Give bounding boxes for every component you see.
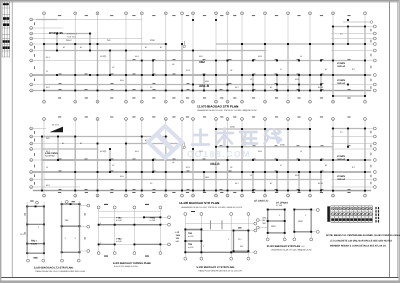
- detail D4 right room: [234, 231, 249, 252]
- svg-text:1: 1: [227, 194, 228, 197]
- detail D1 inner text: [31, 240, 38, 246]
- svg-text:5: 5: [141, 118, 142, 121]
- inner frame bottom line: [1, 276, 398, 278]
- svg-text:LTJIAN: LTJIAN: [337, 62, 345, 65]
- svg-text:14.400 BIAOGAO STR PLAN: 14.400 BIAOGAO STR PLAN: [179, 201, 219, 205]
- svg-text:9: 9: [215, 194, 216, 197]
- detail D4 stair flights: [211, 220, 223, 229]
- svg-text:240: 240: [240, 245, 243, 248]
- svg-text:UNMARKED SLAB TH=100, Φ8@200 2: UNMARKED SLAB TH=100, Φ8@200 2L2W: [271, 249, 312, 252]
- svg-text:3: 3: [264, 118, 265, 121]
- svg-text:5: 5: [309, 118, 310, 121]
- svg-text:4.5M CENG: 4.5M CENG: [45, 152, 58, 155]
- inner frame top line: [1, 1, 398, 3]
- detail D2 top dimension: [72, 200, 75, 203]
- svg-text:9: 9: [215, 12, 216, 15]
- plan1 right axis bubbles: [373, 25, 376, 92]
- plan1 horizontal beams: [33, 20, 371, 97]
- detail D1 bottom bubbles: [27, 259, 45, 262]
- detail D3 top bubbles: [97, 206, 162, 209]
- svg-text:YTB1: YTB1: [150, 217, 156, 220]
- svg-text:3: 3: [97, 118, 98, 121]
- plan2 right dimension texts: [370, 131, 373, 185]
- detail D4 title: [197, 266, 244, 272]
- detail D4 bottom beam: [185, 251, 248, 253]
- inner frame right line: [389, 2, 391, 278]
- svg-text:7: 7: [364, 12, 365, 15]
- plan1 leader note right: [343, 21, 373, 24]
- svg-text:5: 5: [141, 194, 142, 197]
- svg-text:21.300: 21.300: [276, 204, 283, 207]
- detail D3 grid: [99, 209, 168, 251]
- svg-text:2: 2: [241, 118, 242, 121]
- plan1 top dimension text row: [58, 14, 351, 17]
- svg-text:3: 3: [264, 194, 265, 197]
- svg-text:2: 2: [75, 101, 76, 104]
- plan2 stair hatch triangle: [50, 127, 64, 133]
- svg-text:6: 6: [332, 101, 333, 104]
- svg-text:TUJI 03G: TUJI 03G: [67, 35, 77, 38]
- svg-text:DTJF 1:25: DTJF 1:25: [49, 31, 63, 35]
- detail D5 left text: [262, 217, 268, 226]
- svg-text:TIBAN PEIJIN SEE JS-12, MEMBER: TIBAN PEIJIN SEE JS-12, MEMBER DIMS SEE …: [35, 270, 85, 273]
- plan2 bottom dimension text row: [58, 191, 351, 194]
- detail D3 beams: [99, 217, 161, 244]
- detail D5 room B: [294, 210, 311, 232]
- svg-text:5: 5: [309, 12, 310, 15]
- page outer edge right: [398, 0, 400, 283]
- svg-text:1: 1: [43, 101, 44, 104]
- plan1 machine room text block: [49, 31, 77, 39]
- detail D1 top dimension: [30, 200, 33, 203]
- plan1 left axis bubbles: [30, 18, 33, 92]
- svg-text:5.100 BIAOGAO LTJ STR PLAN: 5.100 BIAOGAO LTJ STR PLAN: [34, 266, 73, 269]
- svg-text:2: 2: [241, 194, 242, 197]
- svg-text:4: 4: [125, 118, 126, 121]
- svg-text:WB2: WB2: [298, 220, 304, 223]
- svg-text:1: 1: [43, 12, 44, 15]
- svg-text:1: 1: [227, 118, 228, 121]
- svg-text:2: 2: [241, 12, 242, 15]
- detail D4 room texts: [188, 232, 243, 249]
- svg-text:4: 4: [125, 12, 126, 15]
- detail D4 grid: [185, 216, 254, 258]
- detail D2 top bubble: [65, 200, 68, 203]
- outer frame right line: [397, 2, 399, 278]
- plan2 beam labels: [46, 126, 328, 188]
- svg-text:MEMBER REBAR & CONN DETAILS SE: MEMBER REBAR & CONN DETAILS SEE ATLAS JS…: [330, 244, 387, 247]
- svg-text:YTB1: YTB1: [116, 217, 122, 220]
- svg-text:5.100 BIAOGAO LT STR PLAN: 5.100 BIAOGAO LT STR PLAN: [197, 266, 234, 269]
- svg-text:QT JIAGU XJ: QT JIAGU XJ: [254, 200, 269, 203]
- svg-text:5: 5: [141, 12, 142, 15]
- svg-text:2: 2: [241, 101, 242, 104]
- plan2 major beam overlays: [33, 160, 371, 191]
- svg-text:KL3(2): KL3(2): [100, 55, 107, 58]
- svg-text:6: 6: [165, 12, 166, 15]
- detail D5 inner texts: [271, 214, 307, 228]
- page outer edge left: [0, 0, 1, 283]
- detail D3 right bubbles: [168, 216, 171, 246]
- plan1 left dimension texts: [33, 22, 36, 81]
- plan2 interior dimension texts: [59, 145, 351, 189]
- detail D1 columns: [26, 205, 45, 254]
- svg-text:LTJIAN: LTJIAN: [337, 155, 345, 158]
- detail D4 bottom bubbles: [184, 257, 250, 260]
- plan1 column squares: [43, 19, 366, 97]
- svg-text:7: 7: [364, 194, 365, 197]
- svg-text:h=100: h=100: [116, 240, 123, 243]
- svg-text:4: 4: [287, 118, 288, 121]
- svg-text:JFANG XJ: JFANG XJ: [67, 33, 77, 36]
- detail D1 top bubble: [36, 201, 39, 204]
- plan2 vertical beams: [42, 129, 365, 191]
- svg-text:3: 3: [264, 12, 265, 15]
- svg-text:4: 4: [125, 101, 126, 104]
- svg-text:h=100: h=100: [150, 219, 157, 222]
- plan1 interior dimension texts: [59, 59, 351, 90]
- detail D1 grid verticals: [27, 202, 44, 259]
- svg-text:1:100: 1:100: [234, 106, 240, 109]
- svg-text:3: 3: [97, 12, 98, 15]
- svg-text:8: 8: [192, 101, 193, 104]
- detail D3 title: [113, 262, 151, 268]
- svg-text:h=120: h=120: [188, 235, 193, 238]
- detail D4 columns: [184, 228, 249, 253]
- plan1 bottom dimension text row: [58, 97, 351, 100]
- detail D5 right bubbles: [316, 209, 319, 234]
- svg-text:4: 4: [287, 101, 288, 104]
- detail D4 dimensions: [191, 211, 242, 228]
- detail D4 right bubbles: [254, 222, 257, 254]
- inner frame left line: [11, 2, 13, 278]
- detail D2 columns: [61, 203, 81, 253]
- detail D5 left bubbles: [256, 219, 259, 229]
- detail D5 columns: [267, 209, 312, 234]
- svg-text:9: 9: [215, 101, 216, 104]
- plan2 dark room outline: [42, 137, 75, 161]
- plan1 title: [197, 105, 257, 113]
- svg-text:6: 6: [332, 194, 333, 197]
- plan1 major beam overlays: [33, 75, 371, 91]
- svg-text:4: 4: [125, 194, 126, 197]
- svg-text:4: 4: [287, 194, 288, 197]
- plan1 right wing labels: [337, 33, 355, 85]
- rebar schedule row header: [327, 206, 330, 222]
- svg-text:CO188.COM: CO188.COM: [187, 149, 251, 159]
- svg-text:3: 3: [97, 194, 98, 197]
- svg-text:1: 1: [43, 118, 44, 121]
- svg-text:3: 3: [97, 101, 98, 104]
- plan1 beam labels: [46, 39, 328, 89]
- svg-text:TB3 h12: TB3 h12: [337, 158, 346, 161]
- svg-text:KL10: KL10: [318, 86, 324, 89]
- plan2 room text block: [45, 152, 58, 158]
- svg-text:LTJ CONCRETE C30 (P6), BAR SPL: LTJ CONCRETE C30 (P6), BAR SPLICE SEE GE…: [330, 239, 392, 242]
- svg-text:21.300 BIAOGAO STR PLAN: 21.300 BIAOGAO STR PLAN: [267, 245, 301, 248]
- title block cell text: [3, 3, 10, 49]
- svg-text:5: 5: [141, 101, 142, 104]
- plan1 vertical grid lines: [44, 15, 365, 100]
- svg-text:2: 2: [75, 12, 76, 15]
- page outer edge top: [0, 0, 400, 2]
- svg-text:7: 7: [181, 118, 182, 121]
- svg-text:8: 8: [192, 194, 193, 197]
- svg-text:(2): (2): [262, 219, 265, 222]
- detail D2 right bubbles: [87, 204, 90, 252]
- detail D1 bottom dimension: [34, 256, 38, 259]
- svg-text:WKL1: WKL1: [262, 217, 268, 220]
- detail D5 room A: [268, 210, 285, 233]
- detail D1 left text: [20, 213, 85, 240]
- detail D3 texts: [100, 217, 156, 245]
- plan2 top dimension text row: [58, 116, 351, 119]
- detail D5 title: [267, 245, 312, 251]
- svg-text:1: 1: [227, 12, 228, 15]
- title block strip grid: [2, 2, 10, 57]
- rebar schedule cell symbols: [331, 207, 372, 221]
- plan2 vertical grid lines: [44, 121, 365, 195]
- plan2 horizontal grid lines: [33, 129, 374, 191]
- svg-text:9: 9: [215, 118, 216, 121]
- svg-text:TB1 t: TB1 t: [31, 240, 37, 243]
- svg-text:TB3 h12: TB3 h12: [337, 178, 346, 181]
- detail D2 bottom bubbles: [61, 259, 81, 262]
- detail D2 grid verticals: [62, 201, 80, 259]
- svg-text:TIBAN PLATFORM PEIJIN SEE JS-1: TIBAN PLATFORM PEIJIN SEE JS-12, AS LEFT: [198, 269, 243, 272]
- detail D4 left text cluster: [176, 231, 181, 243]
- rebar schedule table frame: [331, 206, 373, 222]
- detail D4 top bubbles: [184, 213, 250, 216]
- svg-text:1:50: 1:50: [146, 262, 150, 265]
- detail D1 D2 title: [34, 266, 85, 273]
- plan1 right dimension texts: [370, 29, 373, 89]
- svg-text:6: 6: [332, 12, 333, 15]
- watermark logo diamond: [148, 126, 182, 158]
- svg-text:KL3(2): KL3(2): [100, 150, 107, 153]
- svg-text:6: 6: [165, 101, 166, 104]
- svg-text:LTJIAN: LTJIAN: [337, 79, 345, 82]
- svg-text:6: 6: [165, 118, 166, 121]
- plan2 left axis bubbles: [30, 127, 33, 189]
- svg-text:7: 7: [181, 12, 182, 15]
- svg-text:6: 6: [332, 118, 333, 121]
- svg-text:TB3 h12: TB3 h12: [337, 65, 346, 68]
- svg-text:8: 8: [192, 12, 193, 15]
- svg-text:1: 1: [227, 101, 228, 104]
- svg-text:NJ WAIQI: NJ WAIQI: [45, 155, 55, 158]
- svg-text:BAN PEIJIN Φ8@150 2L2W: BAN PEIJIN Φ8@150 2L2W: [114, 265, 138, 268]
- detail D2 right grid: [80, 206, 87, 252]
- plan2 horizontal beams: [33, 129, 371, 191]
- plan2 column squares: [41, 128, 366, 192]
- svg-text:TB3 h12: TB3 h12: [337, 82, 346, 85]
- svg-text:YTB2: YTB2: [116, 237, 122, 240]
- svg-text:2: 2: [75, 194, 76, 197]
- plan1 axis bubbles bottom row: [43, 100, 367, 103]
- detail D1 stair plan outline: [27, 206, 44, 253]
- detail D3 dimensions: [104, 204, 149, 257]
- svg-text:h=120: h=120: [188, 246, 193, 249]
- svg-text:5: 5: [309, 194, 310, 197]
- page outer edge bottom: [0, 280, 400, 283]
- svg-text:7: 7: [364, 101, 365, 104]
- plan2 axis bubbles top row: [43, 118, 367, 121]
- svg-text:7: 7: [181, 194, 182, 197]
- plan2 title: [179, 201, 243, 209]
- svg-text:h=100: h=100: [116, 219, 123, 222]
- svg-text:6: 6: [165, 194, 166, 197]
- svg-text:h=120: h=120: [31, 243, 38, 246]
- detail D5 bottom bubbles: [266, 238, 312, 241]
- plan2 axis bubbles bottom row: [43, 194, 367, 197]
- detail D5 grid: [260, 210, 317, 239]
- svg-text:LTJIAN: LTJIAN: [337, 175, 345, 178]
- svg-text:KL10: KL10: [318, 182, 324, 185]
- svg-text:4: 4: [287, 12, 288, 15]
- detail D2 stair plan outline: [62, 204, 80, 252]
- rebar schedule side title: [375, 207, 379, 223]
- detail D4 left room: [185, 229, 201, 252]
- svg-text:XB2-B: XB2-B: [210, 162, 220, 166]
- svg-text:7: 7: [364, 118, 365, 121]
- detail D2 inner text: [65, 219, 77, 240]
- svg-text:2: 2: [75, 118, 76, 121]
- plan1 axis bubbles top row: [43, 12, 367, 15]
- svg-text:2F LT-1: 2F LT-1: [52, 124, 60, 127]
- plan2 section mark: [183, 142, 185, 149]
- svg-text:1: 1: [43, 194, 44, 197]
- svg-text:UNMARKED SLAB TH=100, TOP ELEV: UNMARKED SLAB TH=100, TOP ELEV H-0.030, …: [181, 206, 243, 209]
- detail D5 top text: [276, 201, 288, 207]
- svg-text:1:50: 1:50: [231, 266, 235, 269]
- svg-text:1:100: 1:100: [215, 202, 221, 205]
- svg-text:350x7: 350x7: [66, 39, 73, 42]
- plan2 left dimension texts: [33, 131, 36, 185]
- svg-text:3: 3: [264, 101, 265, 104]
- plan1 section mark: [183, 41, 185, 48]
- svg-text:XB1-B: XB1-B: [199, 84, 210, 88]
- svg-text:8: 8: [192, 118, 193, 121]
- watermark text TUMU ZAIXIAN: [192, 129, 281, 146]
- plan1 dark room outline: [44, 34, 90, 76]
- svg-text:1:50: 1:50: [70, 266, 74, 269]
- svg-text:5: 5: [309, 101, 310, 104]
- svg-text:7: 7: [181, 101, 182, 104]
- plan2 right axis bubbles: [373, 127, 376, 188]
- svg-text:UNMARKED SLAB TH=100, TOP ELEV: UNMARKED SLAB TH=100, TOP ELEV H-0.030, …: [197, 109, 257, 112]
- svg-text:XB2: XB2: [199, 60, 205, 64]
- plan1 vertical beams: [44, 27, 365, 97]
- detail D3 bottom bubbles: [97, 252, 162, 255]
- svg-text:1:50: 1:50: [301, 245, 305, 248]
- svg-text:WB1: WB1: [271, 225, 277, 228]
- svg-text:NOTE: BEAM-COL CENTERLINE ALIG: NOTE: BEAM-COL CENTERLINE ALIGNED, SLAB …: [326, 234, 400, 237]
- plan1 horizontal grid lines: [33, 20, 374, 91]
- plan2 right wing labels: [337, 131, 355, 181]
- svg-text:TIZH: TIZH: [176, 234, 181, 237]
- detail D3 columns: [98, 216, 162, 245]
